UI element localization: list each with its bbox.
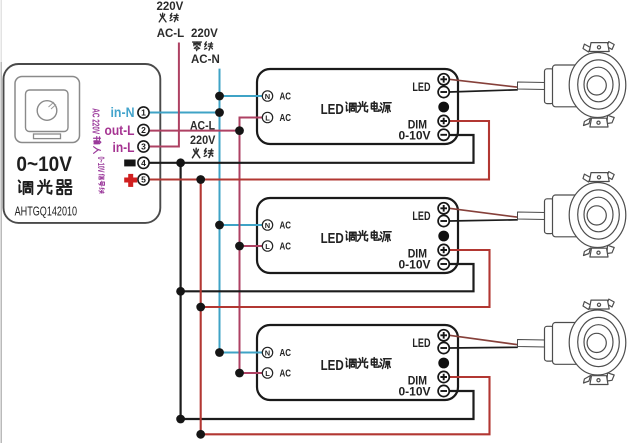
svg-text:AC: AC — [280, 92, 292, 103]
svg-text:in-L: in-L — [113, 140, 135, 155]
svg-text:0~10V: 0~10V — [95, 157, 106, 173]
svg-text:0-10V: 0-10V — [398, 258, 430, 272]
svg-text:LED: LED — [412, 80, 430, 94]
svg-text:4: 4 — [141, 158, 146, 168]
svg-text:AC: AC — [280, 242, 292, 253]
svg-text:N: N — [265, 348, 270, 357]
svg-text:0-10V: 0-10V — [398, 385, 430, 399]
svg-text:out-L: out-L — [105, 123, 135, 138]
svg-text:N: N — [265, 221, 270, 230]
svg-text:220V: 220V — [190, 133, 215, 147]
svg-text:AC: AC — [280, 113, 292, 124]
svg-text:AC-L: AC-L — [190, 119, 215, 133]
svg-text:N: N — [265, 92, 270, 101]
svg-text:LED: LED — [412, 336, 430, 350]
svg-text:L: L — [265, 242, 270, 251]
svg-text:LED: LED — [321, 231, 344, 247]
svg-text:3: 3 — [141, 142, 146, 152]
svg-text:AC-L: AC-L — [157, 28, 184, 40]
svg-text:220V: 220V — [191, 28, 218, 40]
svg-text:AC: AC — [280, 221, 292, 232]
svg-text:5: 5 — [141, 175, 146, 185]
svg-text:AC 220V: AC 220V — [90, 108, 102, 134]
svg-text:0-10V: 0-10V — [398, 129, 430, 143]
svg-text:1: 1 — [141, 108, 146, 118]
svg-text:AC: AC — [280, 369, 292, 380]
svg-text:220V: 220V — [157, 1, 184, 13]
svg-text:AHTGQ142010: AHTGQ142010 — [15, 205, 78, 219]
svg-text:in-N: in-N — [111, 105, 135, 120]
svg-text:AC: AC — [280, 348, 292, 359]
svg-text:0~10V: 0~10V — [16, 153, 72, 176]
svg-text:LED: LED — [321, 358, 344, 374]
svg-text:L: L — [265, 113, 270, 122]
svg-text:AC-N: AC-N — [191, 54, 220, 66]
svg-text:LED: LED — [412, 209, 430, 223]
svg-text:LED: LED — [321, 102, 344, 118]
svg-text:2: 2 — [141, 125, 146, 135]
svg-text:L: L — [265, 369, 270, 378]
